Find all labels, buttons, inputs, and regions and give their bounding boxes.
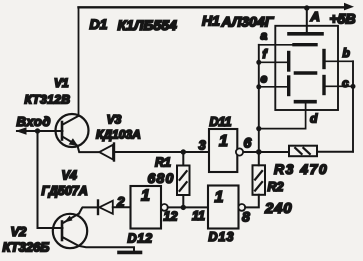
segment b bar bbox=[322, 51, 325, 68]
segment c lead bbox=[326, 85, 353, 87]
svg-text:1: 1 bbox=[219, 133, 228, 150]
wire R3 to right bus bbox=[317, 151, 353, 153]
segment d lead bbox=[259, 103, 306, 129]
segment b lead bbox=[326, 60, 353, 62]
diode V3 КД103А bbox=[113, 144, 115, 161]
junction dot f bbox=[256, 60, 261, 65]
svg-text:f: f bbox=[263, 47, 268, 61]
svg-text:1: 1 bbox=[141, 188, 150, 205]
svg-text:R3 470: R3 470 bbox=[274, 161, 328, 177]
junction dot pin12 node bbox=[181, 205, 186, 210]
gate D1.1 bbox=[209, 129, 237, 172]
segment e bar bbox=[287, 77, 290, 95]
wire D1.2 out to D1.3 in bbox=[168, 206, 208, 208]
svg-text:3: 3 bbox=[199, 138, 207, 153]
gate D1.3 bbox=[208, 186, 239, 229]
node A junction dot bbox=[304, 5, 309, 10]
gate D1.2 bbox=[131, 186, 162, 229]
svg-text:V4: V4 bbox=[62, 169, 77, 183]
svg-text:D12: D12 bbox=[128, 232, 153, 246]
svg-text:d: d bbox=[310, 112, 318, 126]
resistor R1 bbox=[182, 152, 184, 207]
svg-text:680: 680 bbox=[148, 170, 175, 186]
segment a bar bbox=[294, 43, 316, 46]
svg-text:Н1: Н1 bbox=[202, 13, 220, 29]
svg-text:R1: R1 bbox=[155, 156, 171, 170]
wire V3 to pin3 D1.1 bbox=[114, 151, 209, 153]
transistor V2 КТ326Б bbox=[53, 214, 87, 248]
svg-text:D11: D11 bbox=[210, 115, 232, 129]
svg-text:b: b bbox=[343, 46, 350, 60]
svg-text:2: 2 bbox=[116, 195, 125, 210]
svg-text:АЛ304Г: АЛ304Г bbox=[221, 14, 275, 30]
wire input node to V2 base bbox=[38, 131, 63, 228]
transistor V1 КТ312В bbox=[56, 114, 89, 147]
svg-text:КТ326Б: КТ326Б bbox=[3, 240, 50, 255]
svg-text:6: 6 bbox=[244, 135, 252, 151]
svg-text:+5В: +5В bbox=[330, 11, 356, 27]
wire pin6 to R3 bbox=[244, 151, 289, 153]
display common anode bar bbox=[289, 32, 322, 36]
svg-text:V3: V3 bbox=[107, 113, 122, 127]
segment a lead bbox=[259, 44, 294, 46]
junction input node bbox=[35, 128, 40, 133]
segment e lead bbox=[259, 86, 287, 88]
wire input Вход bbox=[17, 130, 63, 132]
svg-text:К1ЛБ554: К1ЛБ554 bbox=[118, 17, 177, 33]
display H1 АЛ304Г body bbox=[275, 26, 338, 110]
junction dot c bbox=[351, 84, 356, 89]
segment g bar bbox=[296, 71, 316, 75]
wire V1 collector to rail bbox=[78, 8, 80, 116]
svg-text:А: А bbox=[310, 9, 320, 24]
segment f bar bbox=[287, 53, 290, 71]
wire +5V top rail bbox=[79, 6, 346, 8]
svg-text:1: 1 bbox=[215, 189, 224, 206]
wire left bus bbox=[258, 45, 260, 152]
junction dot main node bbox=[256, 149, 262, 155]
junction dot e bbox=[256, 84, 261, 89]
junction dot d bbox=[256, 126, 261, 131]
svg-text:8: 8 bbox=[242, 209, 250, 225]
svg-text:V1: V1 bbox=[54, 76, 69, 90]
wire V4 to pin2 D1.2 bbox=[113, 206, 131, 208]
svg-text:D13: D13 bbox=[209, 230, 235, 244]
wire V2 collector to ground bbox=[79, 246, 135, 251]
svg-text:12: 12 bbox=[164, 210, 178, 224]
svg-text:a: a bbox=[261, 29, 268, 43]
input arrow head bbox=[16, 127, 27, 134]
svg-text:ГД507А: ГД507А bbox=[42, 184, 88, 198]
resistor R2 bbox=[258, 152, 260, 165]
segment d bar bbox=[296, 100, 316, 104]
segment f lead bbox=[259, 61, 287, 63]
svg-text:КТ312В: КТ312В bbox=[25, 93, 71, 107]
segment c bar bbox=[322, 77, 325, 94]
resistor R3 bbox=[289, 146, 317, 157]
wire right bus bbox=[352, 61, 354, 151]
diode V4 ГД507А bbox=[97, 201, 99, 215]
svg-text:Вход: Вход bbox=[17, 114, 52, 129]
svg-text:V2: V2 bbox=[11, 224, 28, 239]
svg-text:R2: R2 bbox=[268, 180, 284, 194]
svg-text:c: c bbox=[342, 76, 349, 90]
+5V arrow head bbox=[344, 3, 354, 11]
wire V2 emitter to diode V4 bbox=[79, 207, 97, 213]
svg-text:240: 240 bbox=[264, 200, 292, 217]
svg-text:e: e bbox=[261, 72, 268, 86]
wire D1.3 out to R2 bottom bbox=[245, 195, 259, 208]
svg-text:КД103А: КД103А bbox=[96, 128, 141, 142]
wire V1 emitter to diode V3 bbox=[78, 146, 99, 152]
wire node A to display bbox=[306, 8, 308, 34]
junction dot R1 top bbox=[181, 149, 186, 154]
svg-text:11: 11 bbox=[192, 209, 205, 223]
ground bar bbox=[119, 251, 141, 255]
svg-text:D1: D1 bbox=[90, 16, 108, 32]
